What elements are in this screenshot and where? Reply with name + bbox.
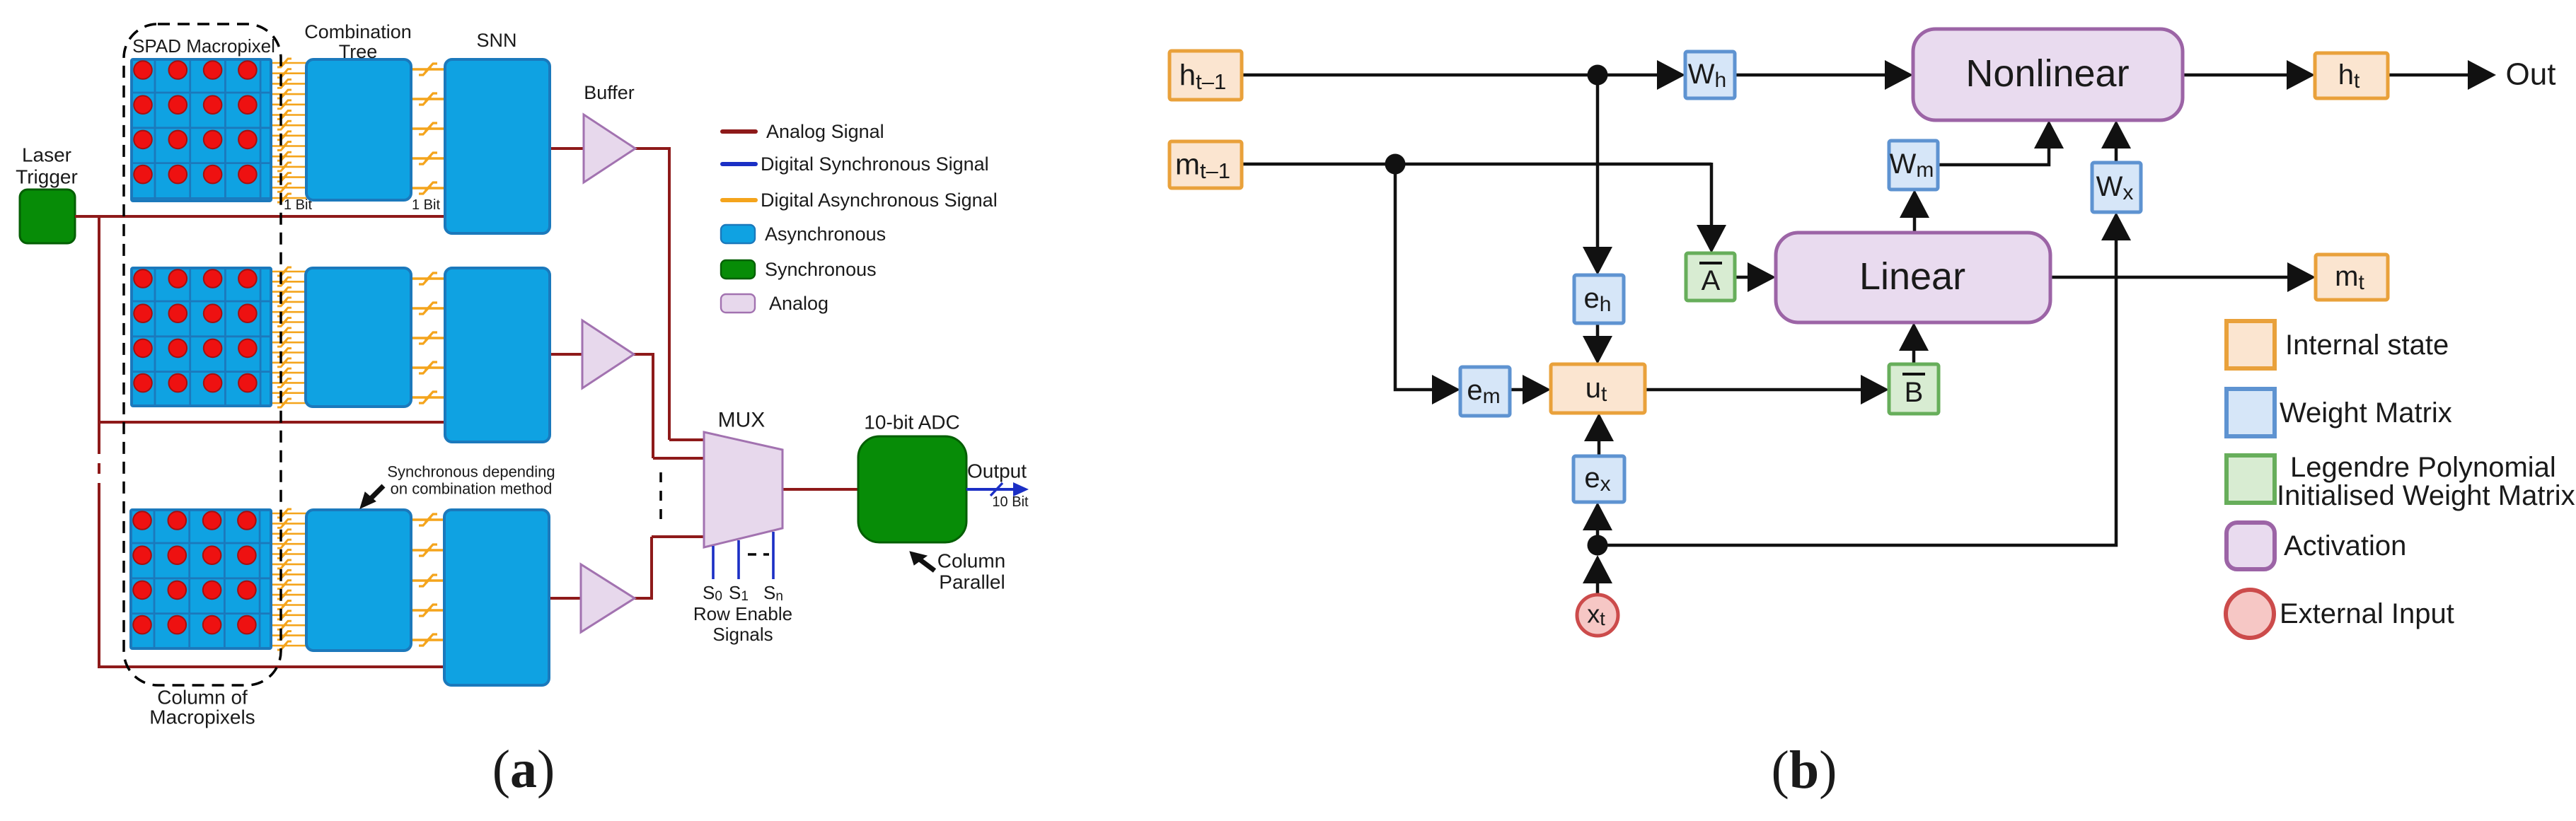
svg-text:Asynchronous: Asynchronous bbox=[765, 223, 886, 245]
svg-text:Analog: Analog bbox=[769, 293, 828, 314]
svg-text:Analog Signal: Analog Signal bbox=[766, 121, 884, 142]
svg-text:10-bit ADC: 10-bit ADC bbox=[864, 412, 959, 433]
svg-text:Combination: Combination bbox=[304, 21, 412, 42]
svg-text:Internal state: Internal state bbox=[2285, 330, 2449, 361]
svg-text:1 Bit: 1 Bit bbox=[412, 197, 440, 213]
svg-text:(a): (a) bbox=[492, 740, 555, 799]
svg-text:10 Bit: 10 Bit bbox=[992, 494, 1029, 510]
svg-text:Digital Synchronous Signal: Digital Synchronous Signal bbox=[761, 153, 989, 175]
svg-text:Column: Column bbox=[937, 550, 1005, 572]
svg-text:MUX: MUX bbox=[718, 409, 766, 432]
svg-text:Digital Asynchronous Signal: Digital Asynchronous Signal bbox=[761, 190, 998, 211]
svg-text:External Input: External Input bbox=[2280, 598, 2454, 629]
svg-text:Column of: Column of bbox=[157, 687, 248, 709]
svg-text:Weight Matrix: Weight Matrix bbox=[2280, 397, 2452, 429]
svg-text:Parallel: Parallel bbox=[939, 571, 1005, 593]
svg-text:Macropixels: Macropixels bbox=[149, 706, 255, 728]
svg-text:Buffer: Buffer bbox=[584, 82, 635, 103]
svg-text:Initialised Weight Matrix: Initialised Weight Matrix bbox=[2277, 480, 2575, 511]
svg-text:Synchronous depending: Synchronous depending bbox=[387, 463, 555, 481]
svg-text:SNN: SNN bbox=[476, 30, 516, 51]
svg-text:Laser: Laser bbox=[22, 144, 71, 166]
svg-text:Nonlinear: Nonlinear bbox=[1965, 52, 2129, 95]
svg-text:1 Bit: 1 Bit bbox=[284, 197, 312, 213]
svg-text:(b): (b) bbox=[1772, 740, 1837, 800]
svg-text:A: A bbox=[1702, 265, 1721, 296]
svg-text:Signals: Signals bbox=[712, 624, 773, 645]
svg-text:Synchronous: Synchronous bbox=[765, 259, 877, 280]
svg-text:on combination method: on combination method bbox=[391, 480, 553, 498]
svg-text:B: B bbox=[1905, 377, 1924, 408]
svg-text:SPAD Macropixel: SPAD Macropixel bbox=[132, 35, 275, 57]
svg-text:Legendre Polynomial: Legendre Polynomial bbox=[2290, 452, 2556, 483]
svg-text:Row Enable: Row Enable bbox=[693, 603, 792, 624]
svg-text:Output: Output bbox=[967, 460, 1027, 482]
svg-text:Activation: Activation bbox=[2284, 530, 2406, 561]
svg-text:Linear: Linear bbox=[1859, 255, 1965, 298]
svg-text:Trigger: Trigger bbox=[16, 166, 78, 188]
svg-text:Tree: Tree bbox=[339, 41, 378, 62]
svg-text:Out: Out bbox=[2506, 57, 2556, 92]
